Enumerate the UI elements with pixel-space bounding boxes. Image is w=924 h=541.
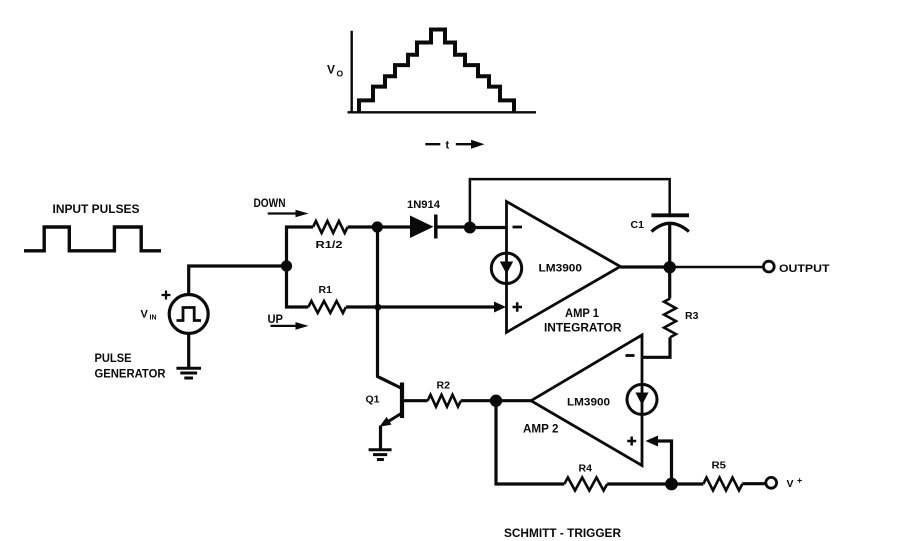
label LM3900 AMP2 [567, 397, 610, 409]
wire Q1 emitter to ground [379, 426, 382, 449]
op-amp U1 LM3900 AMP 1 [507, 202, 621, 333]
feedback wire node C to capacitor C1 [470, 179, 670, 227]
staircase output waveform [359, 30, 514, 113]
node F junction [665, 478, 678, 491]
node C junction [464, 222, 476, 234]
svg-text:R5: R5 [712, 460, 727, 472]
svg-text:INTEGRATOR: INTEGRATOR [544, 323, 622, 335]
wire AMP1 output to node D [620, 265, 669, 268]
wire R5 to V+ terminal [742, 482, 765, 485]
wire node B to diode anode [377, 225, 410, 228]
wire R1/2 to node B [348, 225, 377, 228]
wire node A down to R1 [287, 266, 309, 307]
wire node F to R5 [672, 482, 704, 485]
svg-text:Q1: Q1 [366, 394, 380, 406]
wire C1 bottom to node D [668, 224, 671, 267]
svg-text:R1: R1 [319, 284, 333, 296]
ground (Q1 emitter) [369, 450, 392, 460]
svg-text:IN: IN [150, 315, 157, 322]
wire node D to output terminal [670, 266, 764, 269]
wire pulse generator to ground [187, 334, 190, 369]
output terminal [763, 261, 774, 272]
svg-text:SCHMITT - TRIGGER: SCHMITT - TRIGGER [504, 526, 621, 540]
label INTEGRATOR [544, 323, 622, 335]
svg-text:O: O [337, 69, 344, 79]
label R1 [319, 284, 333, 296]
AMP1 inverting input minus sign [513, 226, 523, 229]
arrowhead into AMP1 noninverting input [494, 302, 506, 313]
svg-text:V: V [787, 478, 794, 490]
capacitor C1 [651, 215, 689, 231]
wire node C to AMP1 inverting input [470, 226, 507, 229]
svg-text:V: V [141, 309, 149, 321]
label R2 [437, 380, 451, 392]
AMP2 noninverting input plus sign [627, 437, 636, 446]
label VIN [141, 309, 157, 322]
label 1N914 [407, 199, 441, 211]
label LM3900 AMP1 [539, 263, 583, 275]
pulse generator V1 [169, 295, 208, 334]
label Q1 [366, 394, 380, 406]
wire R3 to AMP2 inverting input [643, 337, 670, 357]
label R1/2 [316, 239, 343, 251]
op-amp U2 LM3900 AMP 2 [531, 335, 642, 466]
label INPUT PULSES [53, 202, 140, 216]
resistor R2 [428, 395, 461, 407]
label V+ [787, 476, 803, 491]
svg-text:LM3900: LM3900 [567, 397, 610, 409]
diode 1N914 [410, 215, 436, 239]
resistor R1/2 [313, 221, 348, 233]
wire R1 to AMP1 noninverting input [346, 305, 495, 308]
svg-text:PULSE: PULSE [95, 351, 132, 365]
svg-text:OUTPUT: OUTPUT [779, 263, 830, 275]
label PULSE GENERATOR [95, 351, 166, 381]
svg-text:R3: R3 [685, 310, 699, 322]
label R4 [579, 463, 593, 475]
label C1 [631, 219, 645, 231]
AMP2 inverting input minus sign [626, 354, 635, 357]
node B junction [372, 221, 383, 232]
label AMP 1 [565, 308, 600, 320]
AMP2 current source symbol [627, 384, 657, 414]
svg-text:LM3900: LM3900 [539, 263, 583, 275]
label AMP 2 [523, 424, 559, 436]
node A junction [281, 260, 292, 271]
svg-text:GENERATOR: GENERATOR [95, 367, 166, 381]
svg-text:R4: R4 [579, 463, 593, 475]
svg-text:t: t [446, 140, 450, 152]
wire pulse generator to node A [189, 266, 287, 295]
svg-text:AMP 2: AMP 2 [523, 424, 559, 436]
plus sign of pulse generator [162, 291, 171, 300]
svg-text:1N914: 1N914 [407, 199, 441, 211]
svg-text:R2: R2 [437, 380, 451, 392]
wire node B to Q1 collector [378, 227, 403, 389]
svg-text:R1/2: R1/2 [316, 239, 343, 251]
svg-text:+: + [797, 476, 802, 486]
wire node E down to R4 [496, 401, 564, 484]
arrowhead into AMP2 noninverting input [646, 436, 659, 447]
wire node A up to R1/2 [287, 227, 314, 266]
waveform graph axes [348, 31, 537, 113]
wire R4 to node F [607, 482, 671, 485]
node E junction [490, 395, 502, 407]
label R3 [685, 310, 699, 322]
label R5 [712, 460, 727, 472]
AMP1 current source symbol [491, 253, 521, 283]
label DOWN with arrow [254, 198, 309, 218]
resistor R1 [308, 301, 346, 313]
wire R2 to node E [461, 399, 496, 402]
resistor R4 [564, 478, 607, 491]
wire Q1 base to R2 [404, 399, 428, 402]
wire crossing artifact [375, 304, 382, 311]
wire node D to R3 [668, 267, 671, 299]
resistor R5 [703, 478, 742, 491]
label UP with arrow [268, 314, 309, 330]
caption SCHMITT-TRIGGER [504, 526, 621, 540]
wire node E to AMP2 input vertex [496, 399, 531, 402]
svg-text:V: V [327, 63, 335, 77]
ground (pulse generator) [176, 368, 201, 378]
wire diode cathode to node C [436, 225, 470, 228]
svg-text:AMP 1: AMP 1 [565, 308, 600, 320]
label Vo [327, 63, 344, 79]
svg-text:C1: C1 [631, 219, 645, 231]
AMP1 noninverting input plus sign [513, 302, 523, 311]
node D junction [664, 261, 676, 273]
svg-text:DOWN: DOWN [254, 198, 286, 210]
resistor R3 [664, 299, 676, 338]
svg-text:INPUT PULSES: INPUT PULSES [53, 202, 140, 216]
transistor Q1 [379, 383, 402, 427]
input pulses waveform [24, 227, 161, 251]
svg-text:UP: UP [268, 314, 284, 326]
time axis arrow t [425, 140, 484, 152]
label OUTPUT [779, 263, 830, 275]
wire node F to AMP2 noninverting input [657, 441, 672, 484]
V+ terminal [766, 477, 777, 488]
